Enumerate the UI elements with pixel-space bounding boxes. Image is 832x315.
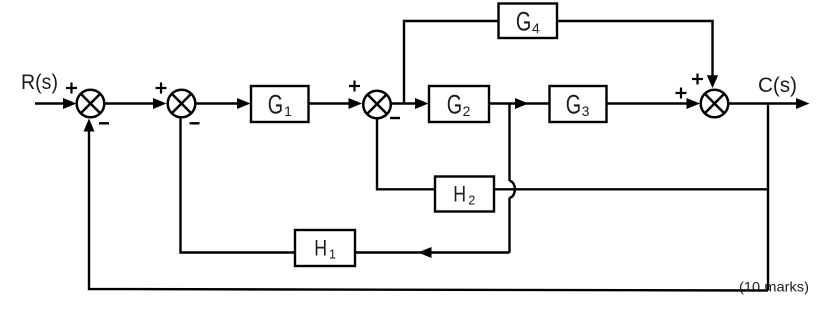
block G4 (499, 4, 558, 39)
block H2 (435, 177, 494, 212)
summer S1 plus sign (66, 87, 77, 89)
svg-text:H: H (453, 182, 466, 207)
block H1 (295, 230, 355, 266)
summer S2 minus sign (190, 122, 200, 124)
summer S3 plus sign (349, 85, 360, 87)
wire H1 output to S2 bottom (181, 118, 296, 253)
svg-text:(10 marks): (10 marks) (739, 279, 809, 295)
wire S2 to G1 (197, 102, 239, 104)
summing junction S3 (363, 91, 391, 119)
svg-text:G: G (268, 90, 283, 120)
wire G4 to S4 top (557, 21, 713, 76)
svg-text:G: G (516, 7, 531, 37)
summing junction S1 (77, 90, 105, 118)
wire branch node up to G4 (404, 21, 499, 104)
summer S3 minus sign (390, 117, 400, 119)
node R(s) input label (21, 71, 58, 94)
wire G3 to S4 (607, 102, 688, 104)
summer S2 plus sign (156, 87, 167, 89)
svg-text:1: 1 (284, 103, 292, 119)
summer S4 plus sign left (676, 92, 687, 94)
svg-text:H: H (314, 236, 327, 261)
block G2 (429, 86, 489, 122)
wire S4 to C(s) output (730, 102, 798, 104)
svg-text:2: 2 (468, 194, 475, 208)
block G3 (550, 86, 607, 122)
block G1 (251, 86, 309, 122)
svg-text:3: 3 (582, 103, 590, 119)
wire H2 output to S3 bottom (377, 119, 435, 190)
wire takeoff to H1 with mid arrow (355, 251, 510, 253)
wire output takeoff down (767, 104, 769, 291)
svg-text:1: 1 (329, 248, 336, 262)
label (10 marks) (739, 279, 809, 295)
wire G2 to G3 with mid arrow (489, 102, 550, 104)
wire G1 to S3 (309, 102, 350, 104)
svg-text:G: G (447, 90, 462, 120)
node C(s) output label (758, 74, 797, 97)
wire input R(s) to summer S1 (35, 102, 64, 104)
wire outer feedback loop (89, 131, 768, 291)
svg-text:C(s): C(s) (758, 74, 797, 97)
summing junction S2 (168, 90, 196, 118)
wire G2-G3 takeoff down with hop over H2 line (508, 104, 510, 182)
svg-text:R(s): R(s) (21, 71, 58, 94)
svg-text:4: 4 (532, 20, 540, 36)
svg-text:2: 2 (463, 103, 471, 119)
wire S3 to G2 (392, 102, 416, 104)
summer S1 minus sign (99, 122, 109, 124)
svg-text:G: G (566, 90, 581, 120)
wire H2 feedback from takeoff to H2 (494, 188, 768, 190)
summing junction S4 (701, 90, 729, 118)
summer S4 plus sign top (692, 78, 703, 80)
wire S1 to S2 (106, 102, 155, 104)
